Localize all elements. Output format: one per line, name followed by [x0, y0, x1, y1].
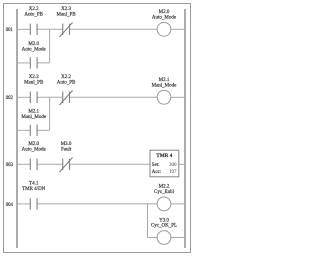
svg-text:M2.1: M2.1 [28, 110, 39, 115]
svg-text:X2.2: X2.2 [29, 7, 39, 12]
svg-text:Manl_PB: Manl_PB [24, 81, 44, 86]
svg-text:X2.3: X2.3 [61, 7, 71, 12]
svg-text:TMR 4: TMR 4 [156, 153, 172, 159]
svg-text:Y3.0: Y3.0 [159, 218, 169, 223]
svg-text:197: 197 [169, 170, 177, 175]
svg-text:Auto_PB: Auto_PB [57, 81, 76, 86]
svg-text:Auto_PB: Auto_PB [24, 13, 43, 18]
svg-text:Cyc_Enbl: Cyc_Enbl [154, 190, 175, 195]
svg-text:Fault: Fault [61, 148, 72, 153]
svg-text:M2.0: M2.0 [159, 10, 170, 15]
svg-text:Auto_Mode: Auto_Mode [22, 48, 47, 53]
svg-text:002: 002 [6, 96, 14, 101]
svg-text:Auto_Mode: Auto_Mode [152, 16, 177, 21]
svg-text:M2.1: M2.1 [159, 78, 170, 83]
svg-text:X2.3: X2.3 [29, 75, 39, 80]
svg-text:Cyc_OK_PL: Cyc_OK_PL [151, 224, 177, 229]
svg-text:T4.1: T4.1 [29, 181, 39, 186]
svg-text:M2.0: M2.0 [28, 142, 39, 147]
svg-text:M2.0: M2.0 [28, 42, 39, 47]
svg-text:004: 004 [6, 203, 14, 208]
svg-text:Set:: Set: [152, 163, 160, 168]
svg-text:001: 001 [6, 28, 14, 33]
svg-text:003: 003 [6, 163, 14, 168]
svg-text:Acc:: Acc: [152, 170, 161, 175]
svg-text:TMR 4/DN: TMR 4/DN [22, 187, 46, 192]
svg-text:M3.0: M3.0 [61, 142, 72, 147]
svg-text:Manl_PB: Manl_PB [57, 13, 77, 18]
svg-text:300: 300 [169, 163, 177, 168]
svg-text:Manl_Mode: Manl_Mode [21, 115, 47, 120]
svg-text:X2.2: X2.2 [61, 75, 71, 80]
svg-text:Auto_Mode: Auto_Mode [22, 148, 47, 153]
svg-text:Manl_Mode: Manl_Mode [152, 84, 178, 89]
svg-text:M2.2: M2.2 [159, 185, 170, 190]
